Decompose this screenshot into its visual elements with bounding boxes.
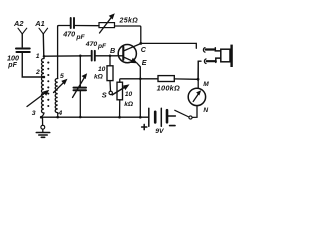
- svg-text:S: S: [102, 90, 107, 99]
- svg-text:100kΩ: 100kΩ: [157, 83, 180, 92]
- svg-text:A2: A2: [13, 19, 24, 28]
- svg-text:kΩ: kΩ: [124, 101, 134, 108]
- svg-text:M: M: [203, 81, 209, 88]
- svg-text:E: E: [142, 58, 147, 67]
- svg-text:B: B: [110, 46, 115, 55]
- svg-text:3: 3: [32, 110, 36, 117]
- svg-text:4: 4: [57, 110, 62, 117]
- svg-text:1: 1: [36, 53, 40, 60]
- svg-text:25kΩ: 25kΩ: [119, 17, 139, 24]
- svg-text:9V: 9V: [155, 128, 165, 135]
- svg-text:A1: A1: [34, 19, 44, 28]
- svg-text:5: 5: [60, 73, 64, 80]
- svg-text:N: N: [203, 107, 208, 114]
- svg-text:10: 10: [98, 66, 106, 73]
- svg-text:pF: pF: [97, 43, 107, 50]
- svg-text:pF: pF: [7, 62, 17, 69]
- svg-text:2: 2: [35, 69, 40, 76]
- svg-text:470: 470: [85, 41, 98, 48]
- svg-text:470: 470: [62, 29, 75, 38]
- svg-text:10: 10: [125, 91, 133, 98]
- svg-text:C: C: [141, 45, 147, 54]
- svg-text:kΩ: kΩ: [94, 73, 104, 80]
- svg-text:pF: pF: [75, 34, 85, 41]
